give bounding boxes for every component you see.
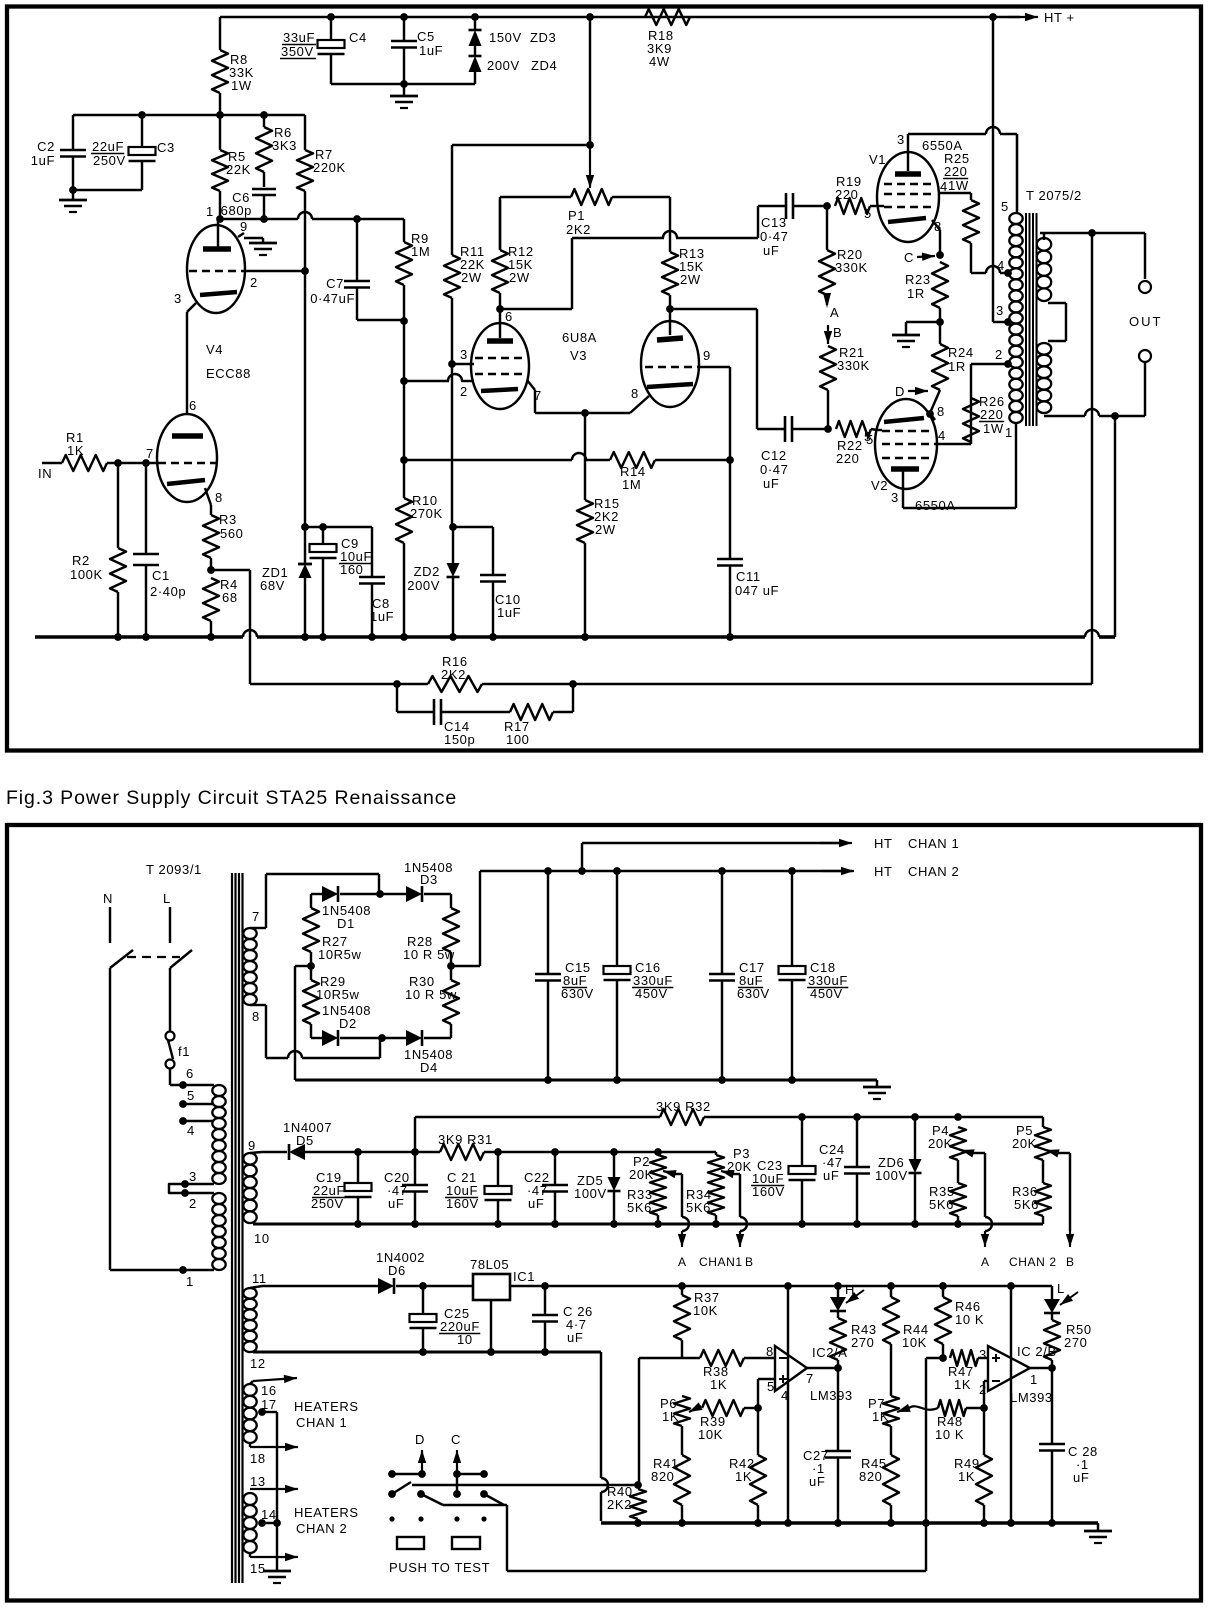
svg-text:68: 68 [222, 590, 238, 605]
svg-text:2W: 2W [680, 272, 701, 287]
label V3 6U8A [562, 330, 597, 363]
junctions HT filter rail [544, 867, 796, 875]
svg-text:8: 8 [215, 490, 223, 505]
label heaters chan2 [294, 1505, 359, 1536]
svg-text:3: 3 [891, 490, 899, 505]
transformer winding 9-10 [243, 1138, 269, 1246]
wire V2 cathode to xfmr pin1 [903, 425, 1016, 508]
capacitor C28 [1039, 1368, 1098, 1523]
capacitor C21 [445, 1152, 512, 1224]
wire OUT ground vertical [1114, 415, 1116, 637]
svg-text:D3: D3 [420, 872, 438, 887]
diode D3 [380, 860, 453, 902]
svg-text:CHAN1: CHAN1 [699, 1255, 743, 1269]
svg-text:1uF: 1uF [497, 605, 521, 620]
resistor R1 input [38, 430, 157, 481]
svg-text:V3: V3 [570, 348, 587, 363]
svg-text:L: L [1057, 1281, 1065, 1296]
resistor R35 [929, 1160, 966, 1224]
wire bias return rail [253, 1220, 1043, 1228]
capacitor C17 [709, 871, 770, 1080]
resistor R40 [607, 1484, 646, 1523]
capacitor C2 [31, 115, 86, 190]
svg-text:330K: 330K [835, 260, 868, 275]
svg-text:16: 16 [261, 1383, 277, 1398]
svg-text:R2: R2 [72, 553, 90, 568]
label T2093/1 [146, 862, 202, 877]
junctions input node [114, 459, 150, 467]
potentiometer P5 [1012, 1117, 1051, 1160]
tap 13 [250, 1474, 298, 1493]
svg-text:200V: 200V [407, 578, 440, 593]
node B arrow [824, 325, 842, 344]
LED H [830, 1282, 864, 1311]
wire P1 left to R12 [499, 197, 501, 250]
wire V4 grid2 down [246, 267, 309, 527]
svg-text:T 2093/1: T 2093/1 [146, 862, 202, 877]
svg-text:C1: C1 [152, 568, 170, 583]
power tube V1 (6550A) [877, 132, 971, 255]
svg-text:2: 2 [250, 275, 258, 290]
svg-text:22uF: 22uF [92, 139, 124, 154]
svg-text:3: 3 [996, 303, 1004, 318]
comparator IC2/B LM393 [979, 1344, 1057, 1405]
svg-text:68V: 68V [260, 578, 285, 593]
svg-text:uF: uF [528, 1196, 544, 1211]
potentiometer P7 [868, 1396, 899, 1426]
zener ZD6 [875, 1117, 922, 1224]
junctions bias line [354, 1148, 419, 1156]
svg-text:10 K: 10 K [935, 1427, 964, 1442]
potentiometer P4 [928, 1123, 966, 1160]
junctions grid node [216, 215, 361, 223]
wire xfmr pin2 to R26 [971, 347, 1012, 398]
wire 5V rail [510, 1285, 1052, 1287]
ground comparator [1084, 1523, 1112, 1543]
svg-text:A: A [981, 1255, 990, 1269]
wire mains L + switch pole [170, 907, 192, 1031]
capacitor C5 [391, 17, 443, 84]
svg-text:ZD2: ZD2 [414, 564, 440, 579]
resistor R29 [303, 962, 359, 1038]
svg-text:15: 15 [250, 1561, 266, 1576]
fuse f1 [166, 1032, 191, 1069]
svg-text:10K: 10K [693, 1303, 718, 1318]
resistor R42 [729, 1408, 766, 1523]
svg-text:1uF: 1uF [370, 609, 394, 624]
svg-text:17: 17 [261, 1397, 277, 1412]
diode D1 [311, 886, 384, 931]
capacitor C10 [453, 527, 521, 637]
svg-text:4W: 4W [649, 54, 670, 69]
svg-text:220: 220 [835, 187, 859, 202]
capacitor C15 [535, 871, 594, 1080]
resistor R45 [859, 1426, 899, 1523]
transformer T2075/2 secondary [1037, 238, 1066, 413]
svg-text:22K: 22K [226, 162, 251, 177]
svg-text:3: 3 [189, 1169, 197, 1184]
svg-text:V4: V4 [206, 342, 223, 357]
svg-text:D: D [895, 384, 905, 399]
svg-text:6: 6 [505, 309, 513, 324]
svg-text:1K: 1K [67, 443, 84, 458]
svg-text:C12: C12 [761, 448, 787, 463]
wire IC2A supply [787, 1286, 789, 1523]
svg-text:10K: 10K [698, 1427, 723, 1442]
svg-text:330K: 330K [837, 358, 870, 373]
resistor R9 [396, 231, 430, 321]
svg-text:uF: uF [388, 1196, 404, 1211]
svg-text:78L05: 78L05 [470, 1257, 509, 1272]
transformer T2075/2 primary [1001, 134, 1023, 425]
svg-text:N: N [103, 891, 113, 906]
svg-text:047 uF: 047 uF [735, 583, 779, 598]
svg-text:10 K: 10 K [955, 1312, 984, 1327]
svg-text:3: 3 [460, 347, 468, 362]
svg-text:5K6: 5K6 [627, 1200, 652, 1215]
ground filter [863, 1080, 891, 1099]
svg-text:1K: 1K [958, 1469, 975, 1484]
wire C2/C3 to ground [69, 186, 142, 194]
resistor R34 [686, 1185, 724, 1224]
label V1 [869, 138, 963, 167]
label V2 [871, 478, 956, 513]
svg-text:CHAN 2: CHAN 2 [296, 1521, 347, 1536]
resistor R50 [1044, 1313, 1092, 1368]
svg-text:8: 8 [631, 386, 639, 401]
wire IC2A out [807, 1364, 842, 1372]
capacitor C8 [359, 527, 394, 637]
resistor R33 [627, 1185, 666, 1224]
wire R39 to +in [754, 1379, 775, 1412]
ground cathode sense [892, 318, 944, 347]
svg-text:270: 270 [851, 1335, 875, 1350]
transformer winding 11-12 [243, 1271, 266, 1371]
diode D4 [382, 1030, 453, 1075]
svg-text:1M: 1M [622, 477, 641, 492]
wire V3 plate2 to C12 [666, 305, 757, 429]
triode V4a (ECC88 upper half) [174, 204, 277, 415]
tap 5 [179, 1088, 214, 1108]
resistor R46 [935, 1286, 984, 1358]
svg-text:820: 820 [859, 1469, 883, 1484]
switch PUSH TO TEST [388, 1432, 507, 1575]
junctions on B+ node [138, 111, 268, 119]
svg-text:V1: V1 [869, 152, 886, 167]
wire secondary top to OUT [1040, 229, 1145, 279]
svg-text:630V: 630V [561, 986, 594, 1001]
svg-text:V2: V2 [871, 478, 888, 493]
svg-text:C7: C7 [326, 276, 344, 291]
svg-text:D2: D2 [339, 1016, 357, 1031]
svg-text:OUT: OUT [1129, 314, 1162, 329]
svg-text:1: 1 [206, 204, 214, 219]
label V4 ECC88 [206, 342, 251, 381]
svg-text:1R: 1R [907, 286, 925, 301]
svg-text:CHAN 1: CHAN 1 [908, 836, 959, 851]
resistor R43 [830, 1311, 877, 1368]
label A CHAN 2 B [981, 1255, 1075, 1269]
svg-text:350V: 350V [281, 44, 314, 59]
svg-text:450V: 450V [635, 986, 668, 1001]
svg-text:220K: 220K [313, 160, 346, 175]
svg-text:6: 6 [186, 1066, 194, 1081]
svg-text:5: 5 [1001, 199, 1009, 214]
resistor R37 [674, 1286, 720, 1358]
wire comparator ground rail [601, 1521, 1098, 1525]
svg-text:0·47: 0·47 [760, 462, 788, 477]
wire tap7 to bridge [250, 874, 379, 928]
svg-text:1R: 1R [948, 359, 966, 374]
svg-text:14: 14 [261, 1507, 277, 1522]
svg-text:PUSH TO TEST: PUSH TO TEST [389, 1560, 490, 1575]
junctions comparator rail [634, 1519, 1056, 1527]
svg-text:A: A [678, 1255, 687, 1269]
svg-text:20K: 20K [629, 1167, 654, 1182]
svg-text:4: 4 [940, 179, 948, 194]
svg-text:1: 1 [186, 1274, 194, 1289]
svg-text:uF: uF [763, 243, 779, 258]
capacitor C19 [311, 1152, 372, 1224]
svg-text:2K2: 2K2 [607, 1497, 632, 1512]
resistor R47 [939, 1350, 988, 1392]
svg-text:10K: 10K [902, 1335, 927, 1350]
svg-text:820: 820 [651, 1469, 675, 1484]
svg-text:12: 12 [250, 1356, 266, 1371]
resistor R7 [297, 115, 346, 271]
svg-text:L: L [163, 891, 171, 906]
resistor R48 [935, 1400, 988, 1442]
tap 14 [258, 1507, 281, 1527]
svg-text:7: 7 [146, 446, 154, 461]
svg-text:T 2075/2: T 2075/2 [1026, 188, 1082, 203]
wire feedback vertical [1091, 233, 1093, 684]
svg-text:1W: 1W [948, 178, 969, 193]
ground HT filter [390, 84, 418, 108]
resistor R20 to A [819, 206, 868, 320]
transformer T2093/1 primary winding lower [212, 1193, 225, 1270]
svg-text:2: 2 [995, 347, 1003, 362]
resistor R41 [651, 1426, 690, 1523]
svg-text:2W: 2W [461, 270, 482, 285]
wire bridge minus down [295, 966, 311, 1080]
wiper P2 to A [663, 1170, 689, 1247]
zener ZD4 [469, 46, 558, 84]
svg-text:680p: 680p [221, 203, 252, 218]
svg-text:250V: 250V [311, 1196, 344, 1211]
comparator IC2/A LM393 [766, 1344, 853, 1403]
svg-text:1: 1 [1030, 1372, 1038, 1387]
capacitor C9 [310, 527, 373, 637]
svg-text:Fig.3 Power Supply Circuit STA: Fig.3 Power Supply Circuit STA25 Renaiss… [6, 787, 457, 809]
wire V1 plate to xfmr pin5 [908, 127, 1017, 213]
capacitor C1 [133, 463, 186, 637]
svg-text:IC1: IC1 [513, 1269, 535, 1284]
resistor R30 [405, 962, 459, 1038]
svg-text:R23: R23 [905, 272, 931, 287]
svg-text:D1: D1 [337, 916, 355, 931]
transformer T2093/1 primary winding upper [212, 1085, 225, 1184]
svg-text:1uF: 1uF [419, 43, 443, 58]
junctions R32 rail [798, 1113, 962, 1121]
capacitor C27 [803, 1368, 851, 1523]
svg-text:CHAN 2: CHAN 2 [1009, 1255, 1057, 1269]
wire R11 chain down [448, 360, 457, 531]
labels N L [103, 891, 171, 906]
svg-text:18: 18 [250, 1451, 266, 1466]
svg-text:HEATERS: HEATERS [294, 1399, 359, 1414]
wire filter ground rail [295, 1076, 877, 1084]
regulator IC1 78L05 [470, 1257, 535, 1352]
svg-text:LM393: LM393 [810, 1388, 853, 1403]
svg-text:B: B [1066, 1255, 1075, 1269]
wire fuse to tap6 [170, 1066, 214, 1089]
transformer winding 7-8 [243, 909, 260, 1024]
svg-text:C4: C4 [349, 30, 367, 45]
terminal OUT hot [1139, 281, 1151, 293]
capacitor C26 [532, 1286, 593, 1352]
resistor R26 body [963, 398, 979, 444]
svg-text:5K6: 5K6 [929, 1197, 954, 1212]
tap 4 [179, 1117, 214, 1138]
svg-text:B: B [833, 325, 842, 340]
svg-text:ECC88: ECC88 [206, 366, 251, 381]
wire cathodes V3 [535, 409, 630, 417]
svg-text:160V: 160V [752, 1184, 785, 1199]
svg-text:630V: 630V [737, 986, 770, 1001]
svg-text:HEATERS: HEATERS [294, 1505, 359, 1520]
junctions ground rail [114, 633, 734, 641]
svg-text:uF: uF [763, 476, 779, 491]
border frame power supply schematic [7, 825, 1201, 1601]
svg-text:HT: HT [874, 836, 893, 851]
label R25 [943, 151, 1005, 273]
resistor R12 [492, 200, 534, 309]
resistor R5 [212, 115, 251, 219]
resistor R15 [577, 413, 620, 637]
svg-text:250V: 250V [93, 153, 126, 168]
svg-text:220: 220 [944, 164, 968, 179]
resistor R28 [403, 894, 459, 966]
svg-text:ZD4: ZD4 [531, 58, 557, 73]
wire test return [507, 1523, 926, 1571]
label R26 [979, 394, 1013, 440]
zener ZD5 [574, 1152, 621, 1224]
resistor R17 [504, 684, 573, 747]
ground [59, 190, 87, 212]
resistor R19 [823, 174, 878, 221]
wire V3 plate to C13 [496, 206, 758, 313]
svg-text:4: 4 [997, 258, 1005, 273]
svg-text:3K9 R31: 3K9 R31 [438, 1132, 493, 1147]
wire P1 right down [669, 197, 671, 252]
svg-text:1: 1 [1005, 425, 1013, 440]
svg-text:0·47uF: 0·47uF [310, 291, 355, 306]
svg-text:33uF: 33uF [283, 30, 315, 45]
resistor R44 [883, 1286, 929, 1396]
svg-text:R24: R24 [948, 345, 974, 360]
svg-text:2·40p: 2·40p [150, 584, 186, 599]
wire IC2B out [1030, 1364, 1056, 1372]
taps 3-2 link [169, 1169, 214, 1211]
svg-text:5: 5 [187, 1088, 195, 1103]
svg-text:1M: 1M [411, 244, 430, 259]
wire zener return [331, 80, 475, 88]
svg-text:0·47: 0·47 [760, 229, 788, 244]
wire 5V return rail [253, 1348, 601, 1356]
zener ZD3 [469, 17, 557, 46]
svg-text:450V: 450V [810, 986, 843, 1001]
resistor R36 [1012, 1160, 1051, 1224]
svg-text:10 R 5w: 10 R 5w [405, 987, 457, 1002]
tap 1 to N [110, 1266, 214, 1289]
svg-text:3: 3 [174, 291, 182, 306]
ground heaters [263, 1558, 291, 1583]
svg-text:270K: 270K [410, 506, 443, 521]
wire HT CHAN 2 [822, 864, 959, 879]
switch link dashed [127, 956, 180, 958]
wire HT CHAN 1 [582, 836, 959, 871]
svg-text:CHAN 1: CHAN 1 [296, 1415, 347, 1430]
border frame top schematic [7, 7, 1201, 751]
wire bridge plus to HT [451, 871, 852, 966]
wire secondary bottom [1044, 363, 1145, 420]
svg-text:IN: IN [38, 466, 52, 481]
svg-text:2K2: 2K2 [441, 667, 466, 682]
node junctions on HT rail [327, 13, 997, 21]
svg-text:10R5w: 10R5w [316, 987, 359, 1002]
svg-text:5K6: 5K6 [686, 1200, 711, 1215]
wire grid node V4 [220, 212, 404, 242]
svg-text:2W: 2W [509, 270, 530, 285]
svg-text:1K: 1K [872, 1409, 889, 1424]
tap 18 [250, 1443, 298, 1466]
svg-text:1K: 1K [954, 1377, 971, 1392]
resistor R6 [256, 115, 297, 187]
svg-text:D4: D4 [420, 1060, 438, 1075]
svg-text:8: 8 [766, 1344, 774, 1359]
capacitor C20 [384, 1152, 428, 1224]
svg-text:C2: C2 [37, 139, 55, 154]
svg-text:560: 560 [220, 526, 244, 541]
svg-text:CHAN 2: CHAN 2 [908, 864, 959, 879]
svg-text:C: C [904, 250, 914, 265]
resistor R24 [930, 322, 974, 413]
svg-text:D6: D6 [388, 1263, 406, 1278]
potentiometer P6 [660, 1396, 690, 1426]
svg-text:2: 2 [460, 384, 468, 399]
potentiometer P3 [708, 1146, 752, 1185]
svg-text:P1: P1 [568, 208, 585, 223]
svg-text:C11: C11 [736, 569, 761, 584]
potentiometer P1 [500, 189, 670, 237]
svg-text:A: A [830, 305, 839, 320]
svg-text:10: 10 [457, 1332, 473, 1347]
svg-text:100K: 100K [70, 567, 103, 582]
label OUT [1129, 314, 1162, 329]
tap 15 [250, 1553, 298, 1576]
resistor R4 [203, 577, 238, 637]
svg-text:1K: 1K [710, 1377, 727, 1392]
capacitor C6 [221, 189, 276, 219]
resistor R18 [645, 9, 690, 69]
zener ZD1 [260, 527, 312, 637]
svg-text:ZD3: ZD3 [530, 30, 556, 45]
svg-text:7: 7 [806, 1371, 814, 1386]
resistor R31 [438, 1132, 716, 1160]
caption [6, 787, 457, 809]
resistor R27 [303, 894, 361, 966]
